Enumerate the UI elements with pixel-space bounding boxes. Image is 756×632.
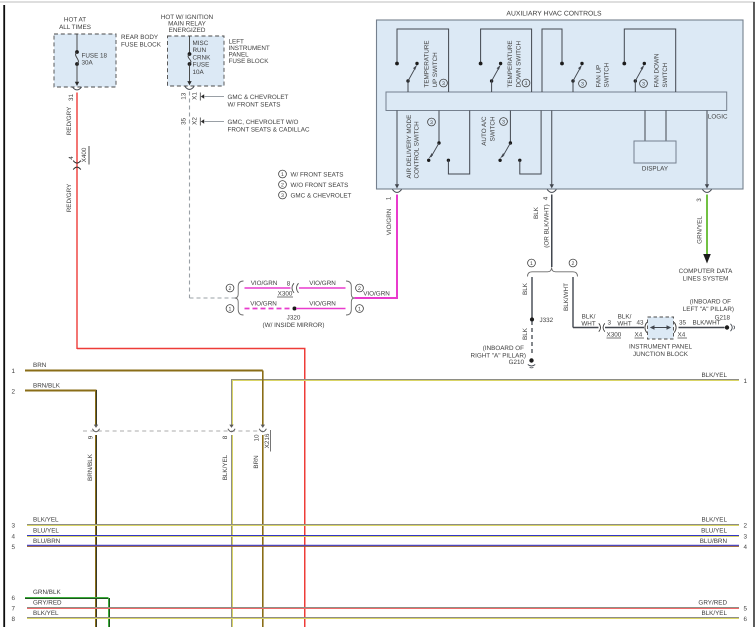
svg-text:30A: 30A [82,60,94,67]
svg-text:3: 3 [744,534,748,541]
svg-text:G210: G210 [509,359,525,366]
svg-text:43: 43 [637,320,645,327]
svg-text:3: 3 [442,81,445,87]
svg-text:4: 4 [11,534,15,541]
svg-text:TEMPERATURE: TEMPERATURE [507,40,514,87]
svg-text:BLK/YEL: BLK/YEL [701,372,727,379]
svg-text:4: 4 [543,196,550,200]
svg-text:10A: 10A [193,69,205,76]
svg-text:INSTRUMENT PANEL: INSTRUMENT PANEL [629,344,693,351]
svg-text:10: 10 [254,434,261,442]
svg-text:REAR BODY: REAR BODY [121,34,159,41]
svg-text:GRY/RED: GRY/RED [33,600,62,607]
svg-text:X300: X300 [607,332,622,339]
svg-text:2: 2 [11,389,15,396]
svg-text:AUTO A/C: AUTO A/C [481,116,488,146]
svg-text:GRY/RED: GRY/RED [698,600,727,607]
svg-text:3: 3 [281,193,284,199]
svg-text:4: 4 [68,156,75,160]
svg-text:W/ FRONT SEATS: W/ FRONT SEATS [228,102,281,109]
svg-text:BLK/YEL: BLK/YEL [33,610,59,617]
svg-text:SWITCH: SWITCH [604,62,611,87]
svg-text:FAN DOWN: FAN DOWN [654,53,661,87]
svg-text:RED/GRY: RED/GRY [66,183,73,212]
svg-text:2: 2 [358,286,361,292]
svg-text:LEFT "A" PILLAR): LEFT "A" PILLAR) [683,306,734,313]
svg-text:LINES SYSTEM: LINES SYSTEM [683,276,729,283]
svg-text:VIO/GRN: VIO/GRN [309,301,336,308]
svg-text:3: 3 [608,320,612,327]
svg-text:BLK: BLK [533,206,540,219]
svg-text:BRN: BRN [33,362,47,369]
svg-text:FUSE: FUSE [193,62,210,69]
svg-text:X400: X400 [81,147,88,162]
svg-text:3: 3 [430,120,433,126]
svg-text:1: 1 [744,378,748,385]
svg-text:8: 8 [222,435,229,439]
svg-text:W/ FRONT SEATS: W/ FRONT SEATS [291,172,344,179]
svg-text:X4: X4 [635,332,643,339]
svg-text:LOGIC: LOGIC [708,114,728,121]
svg-text:BLU/YEL: BLU/YEL [33,528,59,535]
svg-text:HOT AT: HOT AT [64,17,86,24]
svg-text:2: 2 [572,261,575,267]
svg-text:RED/GRY: RED/GRY [66,106,73,135]
svg-text:J332: J332 [540,317,554,324]
svg-text:4: 4 [744,544,748,551]
svg-text:WHT: WHT [581,321,595,328]
svg-text:VIO/GRN: VIO/GRN [386,208,393,235]
svg-text:3: 3 [502,119,505,125]
svg-text:X4: X4 [678,332,686,339]
svg-text:1: 1 [11,368,15,375]
svg-text:2: 2 [229,286,232,292]
svg-text:GRN/BLK: GRN/BLK [33,589,61,596]
svg-text:BLK/: BLK/ [582,314,596,321]
svg-text:DISPLAY: DISPLAY [642,166,669,173]
svg-text:BLK/YEL: BLK/YEL [222,454,229,480]
svg-text:BLU/BRN: BLU/BRN [700,538,728,545]
svg-text:BRN/BLK: BRN/BLK [33,383,61,390]
svg-text:7: 7 [11,606,15,613]
svg-text:BLK/YEL: BLK/YEL [701,517,727,524]
svg-text:6: 6 [11,595,15,602]
svg-text:(OR BLK/WHT): (OR BLK/WHT) [544,204,551,247]
svg-text:FUSE 18: FUSE 18 [82,53,108,60]
svg-text:CONTROL SWITCH: CONTROL SWITCH [414,121,421,179]
svg-text:5: 5 [744,606,748,613]
svg-text:1: 1 [281,172,284,178]
svg-text:BLK/YEL: BLK/YEL [33,517,59,524]
svg-text:BRN: BRN [253,455,260,469]
svg-text:VIO/GRN: VIO/GRN [363,291,390,298]
svg-text:J320: J320 [287,315,301,322]
svg-text:3: 3 [642,81,645,87]
svg-text:G218: G218 [715,315,731,322]
svg-text:8: 8 [11,616,15,623]
svg-text:(INBOARD OF: (INBOARD OF [690,299,731,306]
svg-text:BLU/BRN: BLU/BRN [33,538,61,545]
svg-text:BLU/YEL: BLU/YEL [701,528,727,535]
svg-text:W/O FRONT SEATS: W/O FRONT SEATS [291,182,349,189]
svg-text:6: 6 [744,616,748,623]
svg-text:FAN UP: FAN UP [596,65,603,88]
svg-text:BLK/YEL: BLK/YEL [701,610,727,617]
svg-text:FRONT SEATS & CADILLAC: FRONT SEATS & CADILLAC [228,127,310,134]
svg-text:3: 3 [525,81,528,87]
svg-text:1: 1 [386,196,393,200]
svg-text:WHT: WHT [617,321,631,328]
svg-text:(W/ INSIDE MIRROR): (W/ INSIDE MIRROR) [263,322,325,329]
svg-text:31: 31 [68,94,75,102]
svg-text:1: 1 [358,306,361,312]
svg-text:BLK/: BLK/ [618,314,632,321]
svg-text:DOWN SWITCH: DOWN SWITCH [516,41,523,88]
svg-text:ALL TIMES: ALL TIMES [59,24,91,31]
svg-text:FUSE BLOCK: FUSE BLOCK [121,42,162,49]
svg-text:UP SWITCH: UP SWITCH [432,52,439,88]
svg-text:CRNK: CRNK [193,54,212,61]
svg-text:3: 3 [696,198,703,202]
svg-text:3: 3 [581,81,584,87]
svg-text:GRN/YEL: GRN/YEL [697,216,704,244]
svg-text:RUN: RUN [193,47,207,54]
svg-text:SWITCH: SWITCH [490,116,497,141]
svg-text:SWITCH: SWITCH [662,62,669,87]
svg-text:VIO/GRN: VIO/GRN [250,301,277,308]
svg-text:COMPUTER DATA: COMPUTER DATA [679,268,733,275]
svg-text:GMC & CHEVROLET: GMC & CHEVROLET [228,94,289,101]
svg-text:TEMPERATURE: TEMPERATURE [424,40,431,87]
svg-text:GMC, CHEVROLET W/O: GMC, CHEVROLET W/O [228,119,299,126]
svg-text:BLK: BLK [522,327,529,340]
svg-text:X1: X1 [192,92,199,100]
svg-text:1: 1 [530,261,533,267]
svg-text:35: 35 [679,320,687,327]
svg-text:13: 13 [181,92,188,100]
svg-text:3: 3 [11,523,15,530]
svg-text:BLK/WHT: BLK/WHT [563,283,570,311]
svg-text:VIO/GRN: VIO/GRN [251,280,278,287]
svg-text:VIO/GRN: VIO/GRN [309,280,336,287]
svg-text:35: 35 [181,117,188,125]
svg-text:X216: X216 [264,433,271,448]
svg-text:X300: X300 [278,291,293,298]
svg-text:1: 1 [229,306,232,312]
svg-text:AIR DELIVERY MODE: AIR DELIVERY MODE [406,115,413,179]
svg-text:BLK: BLK [522,282,529,295]
svg-text:5: 5 [11,544,15,551]
svg-text:ENERGIZED: ENERGIZED [169,27,206,34]
svg-text:MISC: MISC [193,40,209,47]
svg-text:X2: X2 [192,117,199,125]
svg-text:JUNCTION BLOCK: JUNCTION BLOCK [633,351,689,358]
svg-text:FUSE BLOCK: FUSE BLOCK [229,58,270,65]
svg-text:(INBOARD OF: (INBOARD OF [483,345,524,352]
svg-text:GMC & CHEVROLET: GMC & CHEVROLET [291,193,352,200]
svg-text:2: 2 [744,523,748,530]
svg-text:9: 9 [88,435,95,439]
svg-text:BRN/BLK: BRN/BLK [87,453,94,481]
svg-text:2: 2 [281,182,284,188]
svg-text:8: 8 [287,281,291,288]
svg-text:AUXILIARY HVAC CONTROLS: AUXILIARY HVAC CONTROLS [506,11,602,18]
